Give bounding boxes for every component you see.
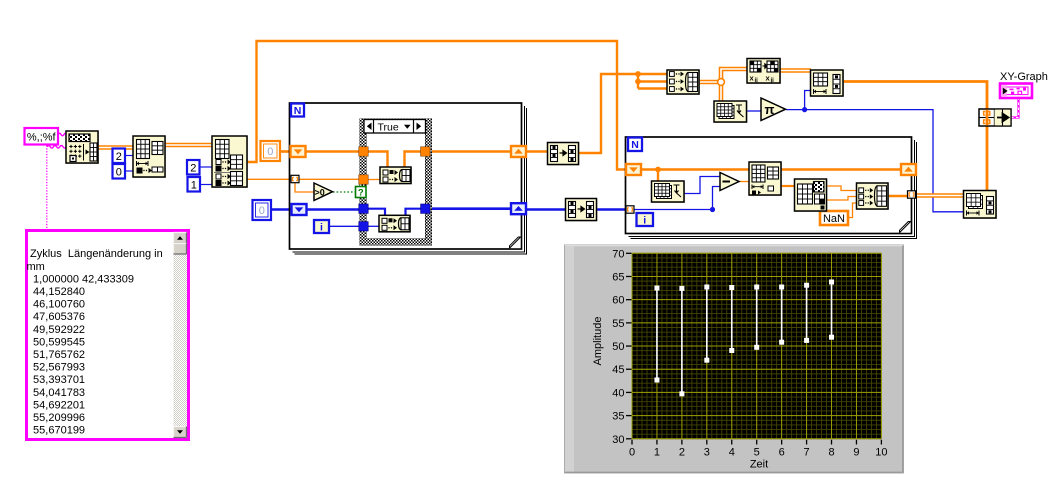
svg-text:NaN: NaN (823, 213, 845, 225)
svg-text:N: N (294, 105, 302, 117)
svg-text:i: i (643, 214, 646, 226)
svg-text:4: 4 (729, 447, 735, 459)
svg-text:i: i (320, 221, 323, 233)
svg-text:2: 2 (190, 162, 196, 174)
svg-text:2: 2 (679, 447, 685, 459)
svg-text:>0: >0 (315, 187, 325, 197)
svg-text:8: 8 (828, 447, 834, 459)
svg-text:55: 55 (612, 318, 624, 330)
svg-text:50,599545: 50,599545 (30, 336, 85, 348)
svg-text:Zeit: Zeit (750, 459, 768, 471)
svg-text:9: 9 (853, 447, 859, 459)
svg-text:70: 70 (612, 248, 624, 260)
svg-text:35: 35 (612, 411, 624, 423)
svg-text:53,393701: 53,393701 (30, 374, 85, 386)
svg-text:ji: ji (770, 78, 775, 84)
svg-text:52,567993: 52,567993 (30, 362, 85, 374)
svg-text:Amplitude: Amplitude (592, 317, 604, 366)
svg-text:65: 65 (612, 271, 624, 283)
svg-text:2: 2 (116, 151, 122, 163)
svg-text:0: 0 (116, 166, 122, 178)
svg-text:0: 0 (629, 447, 635, 459)
svg-text:N: N (631, 139, 639, 151)
svg-text:54,692201: 54,692201 (30, 399, 85, 411)
svg-text:30: 30 (612, 434, 624, 446)
svg-text:?: ? (358, 188, 364, 199)
svg-text:50: 50 (612, 341, 624, 353)
svg-text:54,041783: 54,041783 (30, 387, 85, 399)
svg-text:0: 0 (267, 146, 273, 158)
svg-text:10: 10 (875, 447, 887, 459)
svg-text:ij: ij (755, 78, 759, 84)
svg-text:51,765762: 51,765762 (30, 349, 85, 361)
svg-text:3: 3 (704, 447, 710, 459)
svg-text:5: 5 (754, 447, 760, 459)
svg-text:1,000000 42,433309: 1,000000 42,433309 (30, 273, 134, 285)
svg-text:47,605376: 47,605376 (30, 311, 85, 323)
svg-text:Zyklus Längenänderung in: Zyklus Längenänderung in (30, 248, 163, 260)
svg-text:mm: mm (27, 261, 45, 273)
svg-text:55,209996: 55,209996 (30, 412, 85, 424)
svg-text:XY-Graph: XY-Graph (1000, 71, 1048, 83)
svg-text:1: 1 (654, 447, 660, 459)
svg-text:%,;%f: %,;%f (27, 131, 57, 143)
svg-text:1: 1 (191, 179, 197, 191)
svg-text:46,100760: 46,100760 (30, 299, 85, 311)
svg-text:45: 45 (612, 364, 624, 376)
svg-text:49,592922: 49,592922 (30, 324, 85, 336)
svg-text:π: π (765, 102, 775, 117)
svg-text:40: 40 (612, 387, 624, 399)
svg-text:True: True (378, 121, 399, 133)
svg-text:0: 0 (259, 205, 265, 217)
svg-text:55,670199: 55,670199 (30, 425, 85, 437)
svg-text:6: 6 (779, 447, 785, 459)
svg-text:7: 7 (804, 447, 810, 459)
svg-text:60: 60 (612, 295, 624, 307)
svg-text:44,152840: 44,152840 (30, 286, 85, 298)
